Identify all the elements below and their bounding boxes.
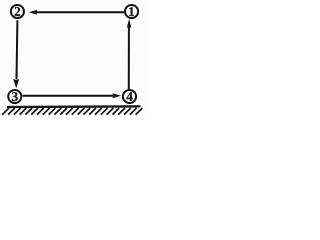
arrowhead into node 1 (points up): [127, 19, 132, 28]
ground surface line: [7, 105, 141, 108]
arrowhead into node 4 (points right): [112, 93, 121, 98]
wire right: arrow from node 4 to node 1: [128, 27, 130, 89]
wire bottom: arrow from node 3 to node 4: [23, 95, 113, 97]
wire top: arrow from node 1 to node 2: [36, 11, 125, 13]
ground hatching: [2, 108, 142, 115]
node 3 (bottom-left circled 3): [8, 90, 21, 103]
wire left: arrow from node 2 to node 3: [16, 20, 19, 79]
arrowhead into node 2 (points left): [29, 10, 38, 15]
arrowhead into node 3 (points down): [13, 79, 19, 88]
node 4 (bottom-right circled 4): [123, 90, 136, 103]
node 1 (top-right circled 1): [125, 5, 138, 18]
node 2 (top-left circled 2): [11, 5, 24, 18]
